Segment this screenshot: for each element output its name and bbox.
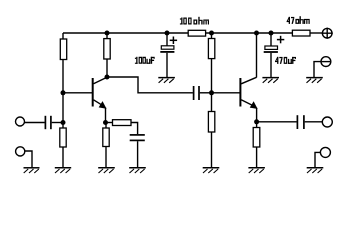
wire C6 to output terminal	[305, 121, 323, 123]
node input coupling junction dot	[61, 120, 66, 125]
resistor R4 (Q1 emitter, vertical at x=106)	[103, 128, 109, 147]
wire base node down to input node	[62, 93, 64, 123]
wire output ground terminal to ground	[315, 152, 321, 167]
wire top supply rail right span	[310, 32, 323, 34]
wire R1 bottom to base node	[62, 60, 64, 93]
transistor Q2	[240, 77, 257, 108]
node Q2 base junction dot	[209, 90, 214, 95]
value label 100ohm	[180, 17, 209, 25]
transistor Q1	[93, 77, 107, 108]
wire rail to C2	[166, 33, 168, 46]
wire R5 to C5	[131, 123, 138, 135]
capacitor C6 (output coupling)	[297, 115, 304, 129]
plus sign of C2	[170, 37, 177, 45]
wire C3 to Q2 base node	[200, 92, 212, 94]
capacitor C2 100uF electrolytic	[160, 46, 174, 52]
ground under R9	[248, 168, 265, 173]
wire Q2 collector to rail	[256, 33, 258, 78]
node Q1 emitter junction dot	[103, 120, 108, 125]
node Q1 collector junction dot	[105, 75, 110, 80]
power terminal minus circle	[321, 57, 331, 67]
node rail junction dot at R2	[105, 31, 110, 36]
ground under C4	[262, 78, 279, 83]
wire Q1 collector to C3 (jog)	[107, 77, 193, 93]
plus sign of C4	[277, 36, 284, 44]
resistor R2 (Q1 collector load, vertical at x=107)	[104, 33, 110, 59]
wire minus terminal to ground	[314, 62, 321, 78]
node rail junction dot at Q2 collector	[254, 31, 259, 36]
ground under R4	[98, 168, 115, 173]
wire input ground terminal to ground	[24, 151, 32, 168]
node rail junction dot at 470uF	[269, 31, 274, 36]
wire C4 to ground	[270, 53, 272, 78]
ground under C5	[129, 168, 146, 173]
wire Q2 base	[212, 92, 241, 94]
wire R9 to ground	[256, 147, 258, 168]
ground at input terminal	[24, 168, 40, 173]
wire R8 to ground	[211, 132, 213, 168]
resistor R7 (Q2 upper bias, vertical at x=211.5)	[208, 33, 214, 59]
node rail junction dot at 100uF	[165, 31, 170, 36]
value label 470uF	[275, 57, 296, 64]
wire emitter node to R5h	[106, 122, 113, 124]
wire Q1 emitter down	[105, 108, 107, 123]
capacitor C3 (interstage coupling)	[194, 86, 199, 100]
wire rail to C4	[270, 33, 272, 46]
ground under R3	[55, 168, 71, 173]
output ground terminal circle	[320, 147, 330, 157]
wire C2 to ground	[166, 53, 168, 78]
input ground terminal circle	[16, 147, 25, 156]
input terminal circle	[16, 117, 25, 126]
node base of Q1 junction dot	[61, 90, 66, 95]
wire Q2 base node to R8	[211, 93, 213, 112]
wire C5 to ground	[137, 141, 139, 167]
resistor R5 (emitter series, horizontal)	[113, 120, 132, 126]
capacitor C5 (emitter bypass)	[130, 135, 145, 141]
wire Q2 emitter node to C6	[257, 121, 297, 123]
wire emitter node to R4	[105, 123, 107, 129]
value label 100uF	[135, 57, 155, 64]
wire C1 to input node	[52, 122, 63, 124]
capacitor C1 (input coupling)	[45, 116, 51, 129]
value label 47ohm	[287, 16, 310, 24]
wire input node to R3	[62, 123, 64, 129]
wire top supply rail mid span	[206, 32, 293, 34]
node Q2 emitter junction dot	[254, 119, 259, 124]
resistor R8 (Q2 lower bias, vertical at x=211.5)	[208, 112, 214, 133]
power terminal plus circle	[322, 28, 333, 39]
ground at output terminal	[307, 168, 324, 173]
wire input terminal to C1	[24, 122, 44, 124]
wire R2 to collector node	[106, 59, 108, 77]
wire Q1 base	[63, 92, 93, 94]
resistor R9 (Q2 emitter, vertical at x=256.5)	[253, 128, 260, 148]
ground under C2	[158, 78, 175, 83]
wire R4 to ground	[105, 147, 107, 168]
output terminal circle	[322, 117, 332, 127]
node rail junction dot at R7 divider	[209, 31, 214, 36]
resistor R1 (left bias, vertical at x=63)	[60, 33, 66, 60]
wire R7 to Q2 base node	[211, 59, 213, 93]
resistor R10 47ohm (supply series, horizontal in rail)	[292, 30, 310, 36]
wire top supply rail left span	[63, 32, 188, 34]
resistor R6 100ohm (supply decoupling, horizontal in rail)	[188, 30, 205, 36]
ground at minus terminal	[306, 78, 323, 83]
wire emitter node to R9	[256, 122, 258, 128]
wire Q2 emitter down	[256, 108, 258, 122]
ground under R8	[203, 168, 220, 173]
resistor R3 (lower bias, vertical at x=63)	[60, 128, 66, 147]
wire R3 to ground	[62, 147, 64, 168]
capacitor C4 470uF electrolytic	[264, 46, 278, 52]
